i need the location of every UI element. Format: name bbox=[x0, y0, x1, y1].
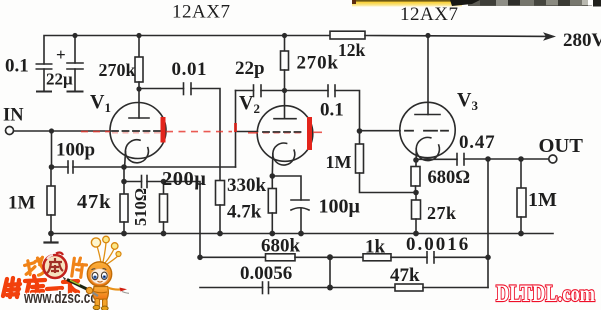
resistor R 1k bbox=[330, 254, 427, 261]
svg-text:12k: 12k bbox=[338, 40, 366, 60]
top banner yellow strip bbox=[352, 0, 601, 7]
node network left mid bbox=[197, 254, 203, 260]
svg-text:47k: 47k bbox=[77, 191, 111, 213]
resistor R 510ohm bbox=[160, 182, 168, 234]
capacitor C 0.0016 bbox=[427, 252, 488, 263]
red artifact tick V2 grid corner bbox=[234, 123, 237, 132]
watermark character zhao (find) bbox=[24, 257, 46, 277]
capacitor C 0.01 coupling bbox=[139, 83, 220, 181]
node feedback center bottom bbox=[327, 285, 333, 291]
resistor R 4.7k V2 cathode bbox=[268, 176, 276, 234]
svg-text:510Ω: 510Ω bbox=[131, 188, 150, 226]
capacitor C 22u electrolytic bbox=[67, 36, 83, 92]
ground bar under 0.1 bbox=[37, 91, 51, 93]
resistor R 1M output bbox=[517, 159, 526, 234]
svg-text:DLTDL.com: DLTDL.com bbox=[496, 281, 595, 306]
svg-text:V1: V1 bbox=[90, 91, 111, 115]
wire V2 grid bbox=[236, 91, 258, 168]
node 680-27k junction bbox=[413, 190, 419, 196]
svg-text:270k: 270k bbox=[297, 53, 339, 74]
node V1 cathode bbox=[121, 164, 127, 170]
svg-text:0.0056: 0.0056 bbox=[240, 263, 292, 284]
svg-text:V2: V2 bbox=[239, 92, 260, 116]
node feedback center top bbox=[327, 254, 333, 260]
svg-text:280V: 280V bbox=[563, 30, 601, 51]
resistor R 680ohm bbox=[411, 160, 420, 193]
svg-text:100μ: 100μ bbox=[319, 196, 361, 218]
resistor R 12k (horizontal, in rail) bbox=[330, 31, 365, 39]
resistor R 27k bbox=[412, 193, 421, 234]
svg-text:OUT: OUT bbox=[539, 135, 584, 157]
resistor R 47k cathode bbox=[120, 167, 128, 234]
mascot antenna balls bbox=[91, 236, 121, 264]
tube V1 triode bbox=[110, 89, 166, 167]
svg-text:100p: 100p bbox=[56, 140, 95, 161]
red watermark dashed line bbox=[81, 132, 322, 134]
svg-text:+: + bbox=[56, 45, 66, 64]
node rail 270k second junction bbox=[282, 33, 287, 38]
capacitor C 0.47 output bbox=[416, 154, 549, 166]
node V2 plate junction bbox=[282, 88, 287, 93]
svg-text:270k: 270k bbox=[99, 60, 136, 80]
node V2 cathode bbox=[270, 173, 276, 179]
svg-text:330k: 330k bbox=[227, 175, 267, 196]
wire V3 grid bbox=[360, 130, 401, 132]
node rail V3 plate bbox=[425, 33, 430, 38]
terminal IN bbox=[6, 127, 14, 135]
node 1M top bbox=[49, 164, 55, 170]
capacitor C 0.0056 bbox=[263, 282, 331, 294]
svg-text:0.1: 0.1 bbox=[320, 100, 344, 121]
tube V3 triode bbox=[400, 36, 455, 161]
capacitor C 0.1 input bypass bbox=[36, 64, 51, 92]
svg-text:0.0016: 0.0016 bbox=[406, 234, 470, 255]
svg-text:680Ω: 680Ω bbox=[428, 168, 471, 188]
svg-text:680k: 680k bbox=[261, 236, 301, 257]
resistor R 1M V3 grid leak bbox=[356, 131, 417, 193]
svg-text:1M: 1M bbox=[326, 152, 352, 172]
svg-text:4.7k: 4.7k bbox=[227, 202, 262, 223]
node rail 270k first junction bbox=[136, 33, 141, 38]
node 1M out top bbox=[518, 156, 524, 162]
node output cap junction bbox=[485, 156, 491, 162]
svg-text:IN: IN bbox=[3, 106, 24, 126]
svg-text:12AX7: 12AX7 bbox=[172, 2, 230, 23]
node rail 22u junction bbox=[72, 33, 77, 38]
svg-text:22p: 22p bbox=[235, 58, 265, 79]
node input junction bbox=[49, 128, 54, 133]
character xia bbox=[63, 281, 78, 297]
wire input down bbox=[51, 131, 53, 167]
ground symbol under 1M bbox=[45, 234, 58, 243]
node 0.0016 right bbox=[485, 254, 491, 260]
mascot right arm with red tip bbox=[108, 288, 130, 294]
capacitor C 100u V2 cathode bypass bbox=[272, 176, 309, 234]
resistor R 47k feedback bbox=[330, 284, 488, 291]
wire rail to arrow bbox=[365, 35, 548, 38]
wire feedback tap to network bbox=[164, 182, 201, 258]
character yi bbox=[47, 288, 62, 289]
mascot pen bbox=[63, 277, 99, 297]
resistor R 330k (V2 grid leak) bbox=[216, 181, 225, 234]
node 280V arrowhead bbox=[543, 32, 556, 40]
ground bar under 22u bbox=[68, 91, 83, 93]
red artifact bar V2 grid bbox=[307, 117, 312, 150]
mascot body bbox=[93, 287, 108, 310]
watermark character pian (chip) bbox=[72, 257, 88, 278]
capacitor C 200u cathode bypass bbox=[124, 176, 164, 188]
wire B+ rail left segment bbox=[44, 36, 330, 65]
svg-text:0.01: 0.01 bbox=[172, 59, 208, 80]
svg-text:12AX7: 12AX7 bbox=[400, 4, 458, 25]
resistor R 270k first (V1 plate load) bbox=[135, 36, 143, 90]
wire output feedback vertical bbox=[487, 159, 489, 288]
character wei bbox=[3, 278, 20, 297]
watermark text weikuyixia bbox=[3, 276, 78, 297]
wire center vertical bbox=[329, 257, 331, 287]
svg-text:1M: 1M bbox=[528, 189, 557, 211]
svg-text:1M: 1M bbox=[8, 193, 36, 214]
svg-text:V3: V3 bbox=[457, 89, 478, 113]
node 510 top bbox=[161, 179, 167, 185]
svg-text:200μ: 200μ bbox=[162, 168, 206, 190]
resistor R 1M input bbox=[47, 167, 55, 234]
resistor R 270k second (V2 plate load) bbox=[281, 36, 289, 91]
terminal OUT bbox=[549, 155, 557, 163]
resistor R 680k feedback bbox=[200, 254, 330, 261]
node V1 plate junction bbox=[136, 86, 141, 91]
red artifact bar V1 grid bbox=[161, 117, 166, 143]
tube V2 triode bbox=[257, 91, 313, 177]
svg-text:1k: 1k bbox=[365, 237, 386, 258]
node bus junctions bbox=[48, 231, 524, 237]
capacitor C 100p with grid line bbox=[52, 161, 236, 173]
svg-text:47k: 47k bbox=[390, 265, 420, 286]
wire ground bus bbox=[51, 233, 553, 235]
watermark red chip logo circle bbox=[44, 253, 67, 278]
character ku bbox=[25, 276, 45, 297]
mascot head bbox=[87, 262, 111, 286]
top banner photo strip bbox=[468, 0, 592, 6]
svg-text:0.47: 0.47 bbox=[459, 132, 495, 153]
node V3 grid junction bbox=[357, 128, 363, 134]
node 200u branch bbox=[121, 179, 127, 185]
capacitor C 0.1 coupling to V3 bbox=[285, 85, 360, 131]
wire IN to V1 grid bbox=[14, 130, 110, 132]
svg-text:22μ: 22μ bbox=[46, 70, 73, 89]
node V3 cathode bbox=[413, 157, 419, 163]
capacitor C 22p feedback bbox=[236, 85, 285, 97]
svg-text:0.1: 0.1 bbox=[5, 56, 29, 77]
wire bottom branch left bbox=[200, 287, 263, 289]
svg-text:27k: 27k bbox=[427, 203, 457, 223]
